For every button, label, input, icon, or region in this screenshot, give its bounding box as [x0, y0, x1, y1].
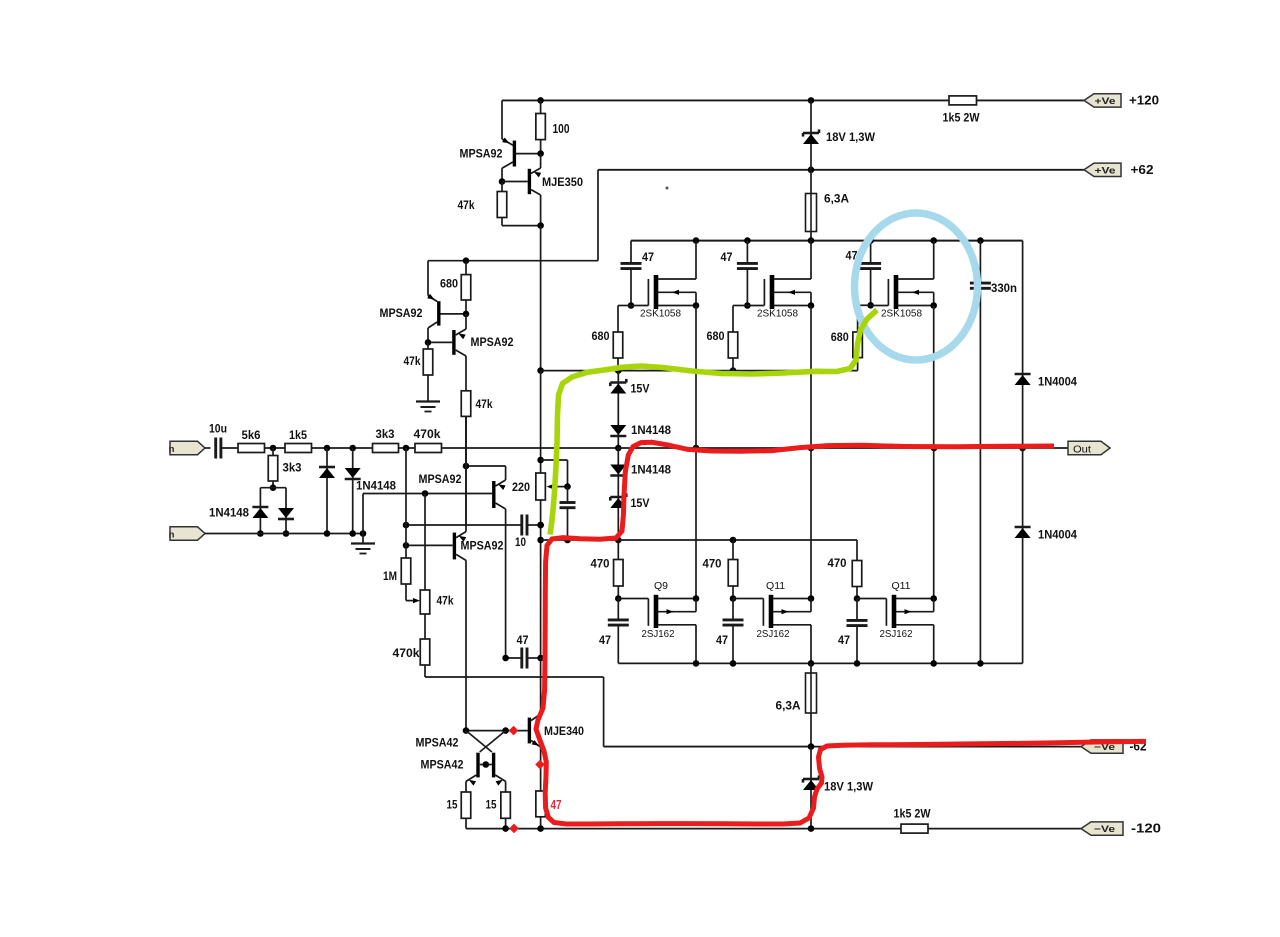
junction rail drain Q10 / fuse — [808, 660, 815, 667]
junction string/lower bus — [615, 537, 622, 544]
resistor 680 (gate U2) — [707, 306, 748, 371]
capacitor 47 (gate Q11) — [838, 599, 868, 664]
red marker dot a — [509, 726, 519, 736]
svg-text:47: 47 — [551, 797, 562, 812]
junction top rail / 100 resistor — [537, 97, 544, 104]
resistor 1k5 — [285, 428, 373, 453]
wire VAS low — [540, 500, 542, 658]
svg-text:3k3: 3k3 — [376, 427, 395, 441]
svg-text:10: 10 — [515, 535, 526, 549]
junction bus 330n — [977, 237, 984, 244]
resistor 1k5 2W (bottom) — [894, 807, 932, 834]
resistor 3k3 (shunt) — [268, 448, 302, 488]
svg-text:2SK1058: 2SK1058 — [881, 308, 922, 320]
junction gate U1 — [628, 302, 635, 309]
junction base Q2 / 47k — [499, 178, 506, 185]
resistor 1M — [383, 558, 420, 603]
svg-text:n: n — [169, 444, 175, 455]
svg-text:47k: 47k — [476, 397, 493, 411]
svg-text:15V: 15V — [631, 382, 650, 396]
mosfet U2 2SK1058 — [747, 241, 814, 320]
capacitor 47 (comp) — [506, 633, 541, 669]
junction -62 fuse/zener — [808, 743, 815, 750]
wire lower FET rail — [618, 662, 1022, 664]
resistor 470 (gate Q9) — [591, 540, 624, 599]
wire source col3 — [933, 306, 935, 599]
junction lower row a — [257, 530, 264, 537]
transistor Q4 MPSA92 — [428, 314, 514, 391]
svg-text:MPSA92: MPSA92 — [460, 147, 503, 161]
resistor 100 — [536, 100, 570, 153]
resistor 470 (gate Q11) — [828, 556, 862, 599]
resistor 680 (bias) — [440, 261, 471, 314]
flag -Ve (-62) — [1081, 740, 1123, 753]
green highlight trace — [550, 310, 877, 535]
svg-text:1N4004: 1N4004 — [1038, 528, 1077, 542]
wire VAS supply vertical — [540, 226, 542, 371]
svg-text:680: 680 — [831, 330, 849, 344]
junction -120 zener — [808, 825, 815, 832]
resistor 47 (driver emitter) — [536, 791, 546, 829]
wire VAS mid — [540, 371, 542, 473]
svg-text:1k5 2W: 1k5 2W — [943, 111, 981, 125]
svg-text:18V 1,3W: 18V 1,3W — [824, 780, 874, 794]
diode 1N4148 (left pair, up) — [209, 506, 268, 520]
svg-text:1N4004: 1N4004 — [1038, 375, 1077, 389]
junction feedback node — [403, 445, 410, 452]
svg-text:2SJ162: 2SJ162 — [880, 628, 913, 640]
wire lower gate bus — [541, 540, 857, 560]
junction ground node — [360, 530, 367, 537]
zener diode 18V 1,3W (bottom) — [803, 747, 874, 829]
svg-text:470: 470 — [828, 556, 847, 570]
junction comp cap bottom — [564, 537, 571, 544]
red highlight trace — [536, 442, 1146, 824]
junction bus drain2/fuse — [808, 237, 815, 244]
junction comp cap right — [537, 655, 544, 662]
junction cap10 right — [537, 522, 544, 529]
resistor 1k5 2W (top) — [943, 96, 981, 125]
capacitor 47 (gate U1) — [621, 241, 655, 306]
svg-text:MPSA92: MPSA92 — [380, 306, 423, 320]
resistor 47k (to ground) — [404, 342, 433, 401]
transistor Q1 MPSA92 (top current source) — [460, 138, 541, 182]
junction wiper branch — [537, 457, 544, 464]
junction bus drain3 — [930, 237, 937, 244]
svg-text:MPSA42: MPSA42 — [416, 736, 459, 750]
svg-text:100: 100 — [553, 122, 570, 136]
transistor Q3 MPSA92 — [380, 261, 467, 343]
wire Q5 base column — [424, 494, 426, 591]
svg-text:6,3A: 6,3A — [824, 192, 849, 206]
junction zener string top — [615, 367, 622, 374]
svg-text:MPSA92: MPSA92 — [461, 538, 504, 552]
junction rail cap Q10 — [730, 660, 737, 667]
resistor 47k (Q4 collector) — [461, 391, 493, 527]
wire wiper branch — [541, 460, 568, 487]
svg-text:2SJ162: 2SJ162 — [642, 628, 675, 640]
junction rail cap Q11 — [854, 660, 861, 667]
junction lower row b — [283, 530, 290, 537]
junction clamp bases — [483, 761, 490, 768]
ground (bias) — [416, 400, 440, 402]
zener diode 18V 1,3W (top) — [803, 100, 876, 169]
svg-text:470k: 470k — [393, 646, 420, 660]
flag -Ve (-120) — [1081, 822, 1123, 835]
stray mark — [666, 187, 669, 190]
junction Q4 base / 47k — [425, 339, 432, 346]
svg-text:1k5: 1k5 — [289, 428, 307, 442]
resistor 3k3 (series) — [373, 427, 416, 453]
flag +Ve (+62) — [1084, 163, 1121, 176]
wire output row — [618, 447, 1022, 449]
junction +62 rail / fuse column — [808, 167, 815, 174]
svg-text:15: 15 — [486, 798, 497, 812]
svg-text:47: 47 — [716, 633, 728, 647]
svg-text:MPSA92: MPSA92 — [471, 335, 514, 349]
svg-text:470: 470 — [591, 557, 610, 571]
transistor Q7 MJE340 — [528, 658, 585, 791]
junction input node A — [270, 445, 277, 452]
diode 1N4148 (mid pair, down) — [345, 448, 397, 534]
wire 470k to -62 row — [425, 677, 811, 747]
junction rail drain Q9 — [693, 660, 700, 667]
svg-text:1N4148: 1N4148 — [209, 506, 249, 520]
junction Q6 base tap — [403, 542, 410, 549]
diode 1N4148 (string upper) — [610, 423, 671, 437]
junction clamp diode b — [349, 445, 356, 452]
junction VAS/cap10 — [537, 522, 544, 529]
junction top rail / 18V zener column — [808, 97, 815, 104]
svg-text:1k5 2W: 1k5 2W — [894, 807, 932, 821]
svg-text:47: 47 — [721, 250, 733, 264]
svg-text:Q11: Q11 — [766, 580, 785, 592]
wire ground riser — [363, 494, 492, 544]
diode 1N4148 (mid pair, up) — [319, 448, 335, 534]
svg-text:1M: 1M — [383, 569, 397, 583]
resistor 680 (gate U3) — [831, 305, 871, 370]
junction mid diode bottom b — [349, 530, 356, 537]
svg-text:15V: 15V — [631, 496, 650, 510]
junction collector Q2 node — [537, 222, 544, 229]
transistor Q8b MPSA42 — [421, 731, 506, 792]
svg-text:680: 680 — [440, 277, 458, 291]
resistor 5k6 — [238, 428, 285, 453]
wire 47k to collector node — [502, 225, 541, 227]
svg-text:10u: 10u — [209, 422, 227, 436]
mosfet U1 2SK1058 — [631, 241, 699, 320]
svg-text:-120: -120 — [1131, 822, 1161, 836]
svg-text:330n: 330n — [991, 281, 1017, 295]
wire -120 row b — [928, 828, 1081, 830]
svg-text:680: 680 — [707, 329, 725, 343]
capacitor 47 (gate U3) — [846, 241, 882, 306]
capacitor 47 (gate U2) — [721, 241, 758, 306]
capacitor 47 (gate Q9) — [599, 599, 629, 664]
junction rail 330n — [977, 660, 984, 667]
svg-text:470: 470 — [703, 557, 722, 571]
junction gate Q10 — [730, 595, 737, 602]
svg-text:1N4148: 1N4148 — [631, 423, 671, 437]
wire to out flag — [1023, 447, 1068, 449]
svg-text:47: 47 — [838, 633, 850, 647]
svg-text:Q11: Q11 — [891, 580, 910, 592]
flag Out — [1068, 441, 1110, 455]
trimmer 47k — [420, 590, 454, 639]
red marker dot b — [535, 760, 545, 770]
diode 1N4148 (string lower) — [610, 448, 671, 540]
flag In (signal input) — [169, 441, 205, 455]
junction VAS gate-bus tap — [537, 367, 544, 374]
svg-text:47: 47 — [599, 633, 611, 647]
junction wiper node — [564, 483, 571, 490]
wire top FET bus — [631, 240, 1023, 242]
svg-text:15: 15 — [447, 798, 458, 812]
mosfet U3 2SK1058 — [871, 241, 937, 320]
zener 15V (lower) — [610, 493, 649, 510]
junction cap10 left — [403, 522, 410, 529]
svg-text:MPSA92: MPSA92 — [419, 472, 462, 486]
diode 1N4148 (left pair, down) — [278, 508, 294, 518]
junction base Q1 / res100 / emitter Q2 — [537, 150, 544, 157]
junction output col1 — [693, 445, 700, 452]
junction rail drain Q11 — [930, 660, 937, 667]
svg-text:3k3: 3k3 — [283, 461, 302, 475]
resistor 15 (right) — [486, 792, 511, 829]
svg-text:+62: +62 — [1131, 163, 1154, 177]
wire driver base row — [466, 730, 528, 732]
svg-text:−Ve: −Ve — [1094, 824, 1115, 834]
junction bus cap3 — [867, 237, 874, 244]
capacitor 10u — [209, 422, 238, 459]
svg-text:2SK1058: 2SK1058 — [757, 308, 798, 320]
junction clamp col b — [502, 727, 509, 734]
wire -120 row — [466, 828, 901, 830]
fuse 6,3A (top) — [806, 170, 850, 241]
svg-text:MJE340: MJE340 — [544, 724, 584, 738]
junction diode pair top — [270, 484, 277, 491]
ground (input) — [351, 542, 375, 544]
svg-text:+120: +120 — [1129, 94, 1159, 108]
capacitor 330n — [970, 241, 1017, 664]
junction output right column — [1019, 445, 1026, 452]
svg-text:47: 47 — [642, 250, 654, 264]
junction Q5 emitter tap — [463, 463, 470, 470]
junction -120 row 47R — [537, 825, 544, 832]
resistor 470k (divider) — [393, 639, 430, 677]
wire lower input row — [205, 533, 363, 535]
svg-text:MJE350: MJE350 — [542, 175, 583, 189]
svg-text:2SK1058: 2SK1058 — [640, 308, 681, 320]
junction bus drain1 — [693, 237, 700, 244]
svg-text:47k: 47k — [437, 594, 454, 608]
junction output col2 — [808, 445, 815, 452]
wire clamp base tie — [480, 764, 492, 766]
svg-text:680: 680 — [592, 329, 610, 343]
svg-text:470k: 470k — [414, 427, 441, 441]
flag In (return input) — [169, 527, 205, 541]
blue highlight ellipse — [855, 213, 978, 360]
junction string/output row — [615, 445, 622, 452]
junction gate U3 — [867, 302, 874, 309]
junction gate Q9 — [615, 595, 622, 602]
transistor Q8a MPSA42 — [416, 731, 506, 792]
junction bias bus start — [537, 537, 544, 544]
svg-text:1N4148: 1N4148 — [631, 463, 671, 477]
trimmer 220 — [512, 473, 568, 500]
wire tail resistor link — [465, 416, 467, 466]
junction gate U2 — [744, 302, 751, 309]
junction output col3 — [931, 445, 938, 452]
mosfet Q10 2SJ162 — [733, 580, 814, 663]
wire right clamp column — [1022, 241, 1024, 664]
svg-text:220: 220 — [512, 480, 530, 494]
junction bus cap2 — [744, 237, 751, 244]
junction gate Q11 — [854, 595, 861, 602]
zener 15V (upper) — [610, 371, 649, 448]
wire +62 rail — [428, 170, 1084, 261]
svg-text:6,3A: 6,3A — [776, 699, 801, 713]
resistor 470k (feedback) — [414, 427, 619, 453]
mosfet Q9 2SJ162 — [618, 580, 699, 663]
red marker dot c — [509, 824, 519, 834]
diode 1N4004 (upper clamp) — [1015, 374, 1078, 389]
wire upper gate bus — [541, 370, 858, 372]
junction 680 top — [463, 257, 470, 264]
svg-text:2SJ162: 2SJ162 — [757, 628, 790, 640]
flag +Ve (+120) — [1084, 94, 1121, 107]
transistor Q5 MPSA92 — [419, 466, 506, 658]
junction feedback divider top — [405, 448, 407, 558]
wire source col1 — [695, 306, 697, 599]
transistor Q6 MPSA92 — [406, 416, 504, 730]
wire -62 row — [604, 746, 1081, 748]
junction 680#2 bottom — [730, 367, 737, 374]
svg-text:+Ve: +Ve — [1095, 165, 1116, 175]
svg-text:47: 47 — [517, 633, 529, 647]
junction -120 row 15R — [502, 825, 509, 832]
resistor 15 (left) — [447, 792, 471, 829]
svg-text:+Ve: +Ve — [1095, 96, 1116, 106]
mosfet Q11 2SJ162 — [857, 580, 937, 663]
capacitor comp (wiper) — [560, 487, 576, 540]
junction base Q5 tap — [422, 490, 429, 497]
svg-text:18V 1,3W: 18V 1,3W — [826, 130, 876, 144]
resistor 680 (gate U1) — [592, 306, 632, 371]
transistor Q2 MJE350 — [502, 154, 583, 226]
wire source col2 — [810, 306, 812, 599]
svg-text:47k: 47k — [458, 198, 475, 212]
fuse 6,3A (bottom) — [776, 663, 817, 746]
junction clamp diode a — [324, 445, 331, 452]
svg-text:Q9: Q9 — [654, 580, 668, 592]
junction comp cap left — [502, 655, 509, 662]
svg-text:1N4148: 1N4148 — [356, 479, 396, 493]
capacitor 47 (gate Q10) — [716, 599, 744, 664]
junction Q3 base node — [463, 311, 470, 318]
capacitor 10 — [406, 515, 541, 550]
svg-text:n: n — [169, 530, 175, 541]
wire emitter drop Q1 — [501, 100, 503, 139]
svg-text:MPSA42: MPSA42 — [421, 758, 464, 772]
resistor 470 (gate Q10) — [703, 540, 738, 599]
wire input — [205, 447, 211, 449]
wire diode pair bracket — [260, 488, 286, 534]
junction lower bus 470#2 — [730, 537, 737, 544]
junction mid diode bottom a — [324, 530, 331, 537]
svg-text:Out: Out — [1073, 443, 1091, 455]
junction clamp col a — [463, 727, 470, 734]
svg-text:5k6: 5k6 — [242, 428, 261, 442]
wire +120 rail — [502, 99, 1084, 101]
resistor 47k (Q1 bias) — [458, 182, 507, 226]
diode 1N4004 (lower clamp) — [1015, 527, 1078, 542]
svg-text:47k: 47k — [404, 354, 421, 368]
